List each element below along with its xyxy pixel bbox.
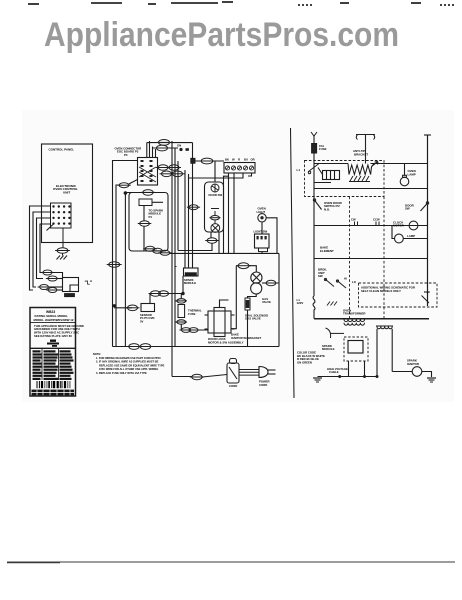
svg-text:FUSE: FUSE xyxy=(319,147,327,151)
node dot bus xyxy=(181,292,184,295)
svg-text:P3: P3 xyxy=(124,153,128,157)
spark module tab xyxy=(139,199,152,206)
cropped header text fragments xyxy=(28,2,455,5)
power cord label xyxy=(229,380,270,388)
ground left xyxy=(313,378,322,382)
door switch lamp xyxy=(211,184,219,192)
heater hatching xyxy=(349,176,370,182)
splice in module xyxy=(138,221,152,227)
svg-text:OR: OR xyxy=(251,158,255,162)
right rail tick xyxy=(424,134,431,136)
secondary leg 2 xyxy=(391,329,393,372)
cavity lamp xyxy=(395,234,404,243)
pilot lamp xyxy=(400,175,409,186)
label table divider xyxy=(31,347,76,349)
wire long vertical to plug rail xyxy=(291,128,295,398)
dashed partition 2 xyxy=(383,197,385,319)
spark module inner xyxy=(348,341,363,354)
svg-text:BK: BK xyxy=(225,158,229,162)
splice S1 xyxy=(41,270,54,275)
spark module box xyxy=(129,193,168,252)
svg-text:VALVE: VALVE xyxy=(262,300,271,304)
splice T xyxy=(199,158,215,164)
cavity lamp wire xyxy=(403,238,428,240)
spark arm xyxy=(326,328,331,338)
wire bus v3 xyxy=(177,161,179,251)
wire bus join xyxy=(175,266,177,267)
motor label xyxy=(208,337,244,344)
svg-text:R: R xyxy=(238,158,240,162)
svg-text:LAMP: LAMP xyxy=(407,234,415,238)
splice module bottom xyxy=(143,246,157,251)
splice S3 xyxy=(38,285,51,290)
wire splice row B xyxy=(153,147,179,149)
wire fuse bottom xyxy=(180,324,182,330)
wire switch drop xyxy=(261,252,263,254)
svg-text:DLB: DLB xyxy=(424,290,430,294)
wire tab drop 2 xyxy=(143,226,145,251)
wire strip drop 2 xyxy=(233,173,235,253)
splice sensor xyxy=(126,305,140,311)
dashed partition 1 xyxy=(349,197,351,319)
secondary leg 1 xyxy=(376,329,378,377)
left rail break xyxy=(313,296,315,319)
note dashed box xyxy=(359,283,438,307)
wire tab link xyxy=(152,201,163,203)
bake ignitor label xyxy=(231,333,262,340)
bake element label xyxy=(320,246,334,253)
relay dashed box xyxy=(305,161,385,197)
wire lamp branch xyxy=(392,226,394,239)
transformer label xyxy=(343,308,366,315)
wire harness run 4 xyxy=(40,224,51,273)
wire branch to sensor xyxy=(114,307,132,309)
splice S2 xyxy=(46,276,59,281)
splice on junction drop xyxy=(187,205,200,210)
svg-text:IGNITOR: IGNITOR xyxy=(407,362,420,366)
wire gas rail drop xyxy=(278,253,280,346)
wire motor left xyxy=(181,329,208,331)
wire bus v4 xyxy=(188,174,190,268)
wire lower H to gas rail xyxy=(229,252,280,254)
light switch box xyxy=(255,234,270,248)
svg-text:SW: SW xyxy=(318,274,323,278)
wire S3 to box xyxy=(49,286,63,288)
wire down from D xyxy=(149,294,151,304)
svg-text:MODULE: MODULE xyxy=(322,347,335,351)
breaker label xyxy=(353,149,368,156)
spark module label xyxy=(322,344,335,351)
splice gas right xyxy=(264,280,278,286)
svg-text:EOC BOARD P3: EOC BOARD P3 xyxy=(117,150,139,154)
svg-text:CORD: CORD xyxy=(229,384,237,388)
left rail tick xyxy=(311,132,317,136)
splice gas top xyxy=(236,263,251,269)
svg-text:CW: CW xyxy=(351,217,356,221)
wire splice row D xyxy=(150,293,183,295)
wire harness from keypad - run 1 xyxy=(30,206,51,290)
wire rung bottom thick xyxy=(314,318,429,320)
svg-text:LAMP: LAMP xyxy=(408,172,416,176)
bottom horizontal rule xyxy=(7,561,455,563)
wire splice row C xyxy=(125,192,163,194)
wire strip drop 3 xyxy=(188,173,243,178)
wire mid rail xyxy=(124,193,126,347)
gas valve label 2 xyxy=(245,313,268,320)
svg-text:CORD: CORD xyxy=(259,383,267,387)
svg-text:BU: BU xyxy=(244,158,248,162)
wire door unit drop 2 xyxy=(188,243,212,250)
svg-text:MOTOR & SW ASSEMBLY: MOTOR & SW ASSEMBLY xyxy=(208,341,244,345)
oven light xyxy=(258,214,266,222)
splice motor feed 2 xyxy=(187,328,200,333)
svg-text:5V: 5V xyxy=(140,319,144,323)
wire strip drop 1 xyxy=(228,173,230,253)
svg-text:REPLACED USE SAME OR EQUIVALEN: REPLACED USE SAME OR EQUIVALENT WIRE TYP… xyxy=(99,363,165,367)
wire gas right xyxy=(262,282,266,284)
scan background tint xyxy=(22,110,454,402)
thermal breaker xyxy=(356,135,375,164)
svg-text:AppliancePartsPros.com: AppliancePartsPros.com xyxy=(44,16,399,54)
transformer primary xyxy=(344,319,365,321)
thermal fuse xyxy=(176,299,188,325)
splice module bottom 2 xyxy=(151,248,165,253)
wire strip drop 5 xyxy=(224,176,229,253)
arrow marker xyxy=(372,162,379,167)
spark igniter xyxy=(412,367,422,377)
wire harness run 2 xyxy=(33,212,51,287)
svg-text:L1: L1 xyxy=(297,168,301,172)
junction box xyxy=(63,278,79,292)
bake motor assembly xyxy=(205,308,235,337)
wire bus v1 xyxy=(171,141,173,377)
power cord wires xyxy=(239,370,259,376)
door lock switch assembly xyxy=(205,182,224,232)
pilot lamp label xyxy=(408,169,416,176)
broil label xyxy=(318,268,327,279)
clock motor label xyxy=(393,220,405,227)
selector switch B xyxy=(337,281,346,289)
svg-text:CONTROL PANEL: CONTROL PANEL xyxy=(49,147,75,151)
wire igniter right xyxy=(422,372,432,378)
igniter label xyxy=(407,358,420,365)
door switch left xyxy=(314,200,322,210)
relay contacts xyxy=(308,164,331,183)
splice bottom 2 xyxy=(138,344,152,350)
svg-text:GN: GN xyxy=(177,144,181,148)
svg-text:"L": "L" xyxy=(85,281,93,287)
svg-text:105C WIRE FOR ALL OTHER USE AP: 105C WIRE FOR ALL OTHER USE APPL WIRING xyxy=(99,367,158,371)
svg-text:SELF CLEAN MODELS ONLY: SELF CLEAN MODELS ONLY xyxy=(361,289,401,293)
splice cluster 4 xyxy=(171,171,185,177)
wire bottom run xyxy=(318,376,378,378)
wire light to switch box xyxy=(261,222,263,234)
node dot mid rail xyxy=(124,191,128,195)
wire cord run xyxy=(202,375,227,378)
control panel box xyxy=(42,144,93,243)
svg-text:CCW: CCW xyxy=(373,217,380,221)
gas valve label xyxy=(262,297,271,304)
splice D2 xyxy=(157,291,171,297)
svg-text:ELEMENT: ELEMENT xyxy=(320,249,334,253)
electronic oven control label xyxy=(53,184,78,194)
label footer rows xyxy=(32,390,75,396)
fuse F1 xyxy=(312,144,317,154)
gas valve solenoids xyxy=(251,272,262,294)
wire rung 1 xyxy=(314,163,348,165)
wire TOD drop xyxy=(182,276,184,294)
wire door unit drop 1 xyxy=(210,233,212,239)
junction block xyxy=(191,158,195,163)
wire cord drop xyxy=(172,376,192,378)
spark winding top bar xyxy=(376,325,393,327)
wire strip drop 4 xyxy=(248,173,252,176)
flame switch xyxy=(245,298,250,310)
wire arm link xyxy=(330,332,344,334)
svg-text:HI: HI xyxy=(344,277,347,281)
junction box terminal bar xyxy=(65,294,75,297)
clock motor xyxy=(409,221,418,230)
wire left rail pair b xyxy=(116,185,120,347)
spark module text xyxy=(149,208,165,219)
line break label xyxy=(297,298,304,305)
note box text xyxy=(361,286,416,294)
wire connector riser 2 xyxy=(149,141,151,158)
wire bus v2 xyxy=(174,148,176,347)
left small text block xyxy=(297,350,325,364)
left rail xyxy=(313,136,315,296)
oven sensor box xyxy=(141,304,155,312)
wire door unit riser xyxy=(214,161,216,182)
splice cluster 2 xyxy=(167,165,181,171)
door switch left label xyxy=(324,201,343,212)
svg-text:UNIT: UNIT xyxy=(63,190,70,194)
rung 3 tick A xyxy=(351,217,358,225)
rung 3 tick B xyxy=(373,217,380,225)
relay coil xyxy=(323,171,340,180)
svg-text:W: W xyxy=(232,158,235,162)
door switch right xyxy=(421,203,429,212)
wire igniter left xyxy=(392,371,412,373)
rating label outer box xyxy=(30,308,76,397)
spark module dashed box xyxy=(344,337,368,361)
oven connector J1 xyxy=(138,158,158,186)
oven connector label xyxy=(115,146,142,157)
chassis hatch marks xyxy=(327,302,337,306)
wire keypad to splice xyxy=(62,228,64,248)
wire door drops join xyxy=(178,250,211,252)
splice D1 xyxy=(149,291,163,297)
splice below door unit xyxy=(205,238,219,244)
heater element coil xyxy=(348,164,374,175)
barcode xyxy=(37,381,71,388)
sensor label xyxy=(140,313,154,324)
svg-text:TRANSFORMER: TRANSFORMER xyxy=(343,312,366,316)
wire rung 2 xyxy=(314,188,428,190)
svg-text:FUSE: FUSE xyxy=(188,312,196,316)
chassis ground hatch xyxy=(57,253,68,259)
wire bus v5 xyxy=(184,170,186,268)
wire connector riser 3 xyxy=(152,147,154,158)
svg-text:MOTOR: MOTOR xyxy=(393,224,405,228)
door unit mid contact xyxy=(210,209,221,224)
svg-text:IGNITOR W/ BRACKET: IGNITOR W/ BRACKET xyxy=(231,336,262,340)
strain relief xyxy=(227,359,239,384)
splice motor feed 1 xyxy=(179,328,192,333)
right rail xyxy=(427,135,429,306)
plug prongs xyxy=(268,370,276,374)
wire diag to connector xyxy=(129,180,138,185)
splice rail b xyxy=(117,183,131,188)
wire spark drop 2 xyxy=(364,361,366,377)
spark transformer winding xyxy=(377,327,392,329)
label paragraph xyxy=(34,324,84,338)
junction box inner notch xyxy=(70,285,79,292)
ground right xyxy=(427,378,436,382)
svg-text:DOOR SW: DOOR SW xyxy=(209,193,223,197)
wire oven light out xyxy=(266,218,277,254)
svg-text:CABLE: CABLE xyxy=(329,370,339,374)
selector labels xyxy=(344,277,357,284)
junction dot lower xyxy=(113,304,116,307)
splice S4 xyxy=(46,288,59,293)
wire spark drop 1 xyxy=(348,361,350,377)
wire tab drop xyxy=(143,206,145,222)
model table vertical rules xyxy=(42,349,59,380)
keypad pointer tick xyxy=(47,225,54,231)
wire fuse top xyxy=(180,294,182,299)
splice cluster 3 xyxy=(160,171,174,177)
label divider xyxy=(30,322,76,324)
wire S2 to box xyxy=(57,278,63,280)
splice B xyxy=(155,145,170,151)
oven temp disc TOD xyxy=(184,268,199,276)
light switch tab xyxy=(259,248,268,252)
label emblem xyxy=(47,340,59,347)
wire left rail pair a xyxy=(113,161,138,347)
wire junction riser xyxy=(192,143,194,159)
transformer secondary xyxy=(344,323,365,325)
splice on left rail xyxy=(107,262,122,268)
wire junction drop xyxy=(192,163,194,268)
wire gas to valve xyxy=(249,266,256,272)
door latch motor xyxy=(211,224,220,233)
svg-text:SEE RATING PLATE 120V 60: SEE RATING PLATE 120V 60 xyxy=(34,334,72,338)
svg-text:SW: SW xyxy=(405,207,410,211)
wire rung 4 xyxy=(314,258,428,260)
svg-text:2. IF ANY ORIGINAL WIRE AS SUP: 2. IF ANY ORIGINAL WIRE AS SUPPLIED MUST… xyxy=(96,360,159,364)
splice bottom 1 xyxy=(127,344,141,350)
oven light label xyxy=(257,207,266,214)
svg-text:1. FOR WIRING DIAGRAMS USE PAR: 1. FOR WIRING DIAGRAMS USE PART 164D3147… xyxy=(96,356,161,360)
TOD label xyxy=(184,278,196,285)
wire splice row A xyxy=(164,142,193,144)
svg-text:120V: 120V xyxy=(297,301,304,305)
wire gas left drop xyxy=(231,266,236,329)
splice cluster right of connector xyxy=(156,165,170,171)
wire bottom bus xyxy=(113,346,280,348)
terminal strip TB1 xyxy=(224,163,255,174)
splice below panel xyxy=(55,248,70,254)
wire connector riser 4 xyxy=(155,149,157,158)
svg-text:MODULE: MODULE xyxy=(184,281,196,285)
svg-text:P1: P1 xyxy=(149,215,153,219)
keypad matrix xyxy=(51,203,72,228)
wire gas feed xyxy=(236,265,238,267)
svg-text:MODEL JGBP35WEV2WW 12: MODEL JGBP35WEV2WW 12 xyxy=(34,318,74,322)
wire splice S1 to junction box xyxy=(52,273,63,278)
wire connector riser 1 xyxy=(146,143,148,158)
pilot lamp stem xyxy=(404,164,406,176)
door switch right label xyxy=(405,203,415,210)
wire to terminal strip xyxy=(195,160,224,162)
wire motor feed top xyxy=(220,300,229,308)
svg-text:GN GREEN: GN GREEN xyxy=(297,361,312,365)
wire flame switch drop xyxy=(247,310,249,347)
model table rows xyxy=(33,350,74,380)
terminal strip labels xyxy=(225,158,255,162)
splice A xyxy=(157,140,172,146)
svg-text:N.O.: N.O. xyxy=(324,207,330,211)
svg-text:BRACKET: BRACKET xyxy=(354,152,368,156)
selector switch A xyxy=(325,279,334,287)
grounded text xyxy=(327,367,348,374)
connector cross wires xyxy=(139,167,156,182)
wire bottom splices xyxy=(170,252,229,254)
splice C xyxy=(141,190,155,196)
wire valve bottom xyxy=(248,294,257,298)
wire harness run 3 xyxy=(37,218,51,279)
wire door unit drop 3 xyxy=(218,233,220,254)
splice cord xyxy=(190,374,204,380)
node dots bottom xyxy=(338,375,378,378)
wire rung 3 xyxy=(314,225,428,227)
fuse label xyxy=(319,144,327,151)
note box switch xyxy=(422,296,430,304)
node GN terminal xyxy=(177,144,189,152)
notes block xyxy=(93,352,165,375)
wire S4 to box xyxy=(57,289,63,291)
wire rung 1b xyxy=(371,163,428,165)
svg-text:NOTE:: NOTE: xyxy=(93,352,101,356)
thermal fuse label xyxy=(188,309,202,316)
svg-text:3. REPLACE FUSE ONLY WITH 15A: 3. REPLACE FUSE ONLY WITH 15A TYPE xyxy=(96,371,147,375)
wire loop top run xyxy=(147,142,164,144)
splice module bottom 3 xyxy=(158,250,172,255)
power plug xyxy=(259,367,268,378)
svg-text:LIGHT SW: LIGHT SW xyxy=(254,230,268,234)
